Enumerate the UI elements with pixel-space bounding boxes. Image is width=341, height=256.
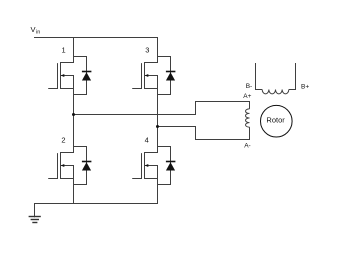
svg-text:A-: A-: [244, 143, 251, 150]
svg-text:4: 4: [145, 135, 149, 144]
svg-text:in: in: [36, 30, 40, 36]
svg-text:B-: B-: [246, 83, 253, 90]
svg-text:A+: A+: [243, 93, 251, 100]
svg-text:3: 3: [145, 46, 149, 55]
svg-text:B+: B+: [301, 84, 309, 91]
svg-text:1: 1: [62, 45, 66, 54]
svg-text:2: 2: [61, 136, 65, 145]
svg-text:Rotor: Rotor: [266, 116, 285, 125]
svg-text:V: V: [31, 25, 36, 34]
